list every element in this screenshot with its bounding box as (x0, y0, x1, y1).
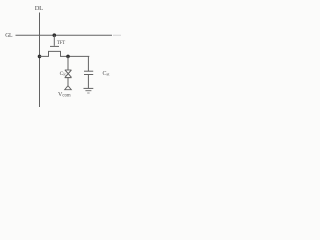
wire Clc bottom lead (67, 78, 69, 86)
wire TFT channel source-drain path (40, 51, 90, 56)
wire Cst bottom lead (87, 75, 89, 89)
capacitor Cst top plate (84, 70, 93, 72)
svg-text:Cst: Cst (103, 71, 111, 77)
capacitor Clc top plate (65, 69, 72, 71)
svg-text:GL: GL (5, 33, 13, 39)
wire Cst top lead (87, 56, 89, 71)
transistor TFT gate bar (50, 45, 59, 47)
wire Clc top lead (67, 56, 69, 70)
svg-text:Vcom: Vcom (58, 92, 71, 98)
svg-text:Clc: Clc (60, 71, 67, 77)
ground bar 2 (85, 90, 91, 92)
junction source dot on DL (38, 55, 42, 59)
junction gate dot on GL (53, 33, 57, 37)
wire GL faint tail (113, 34, 121, 36)
capacitor Clc bottom plate (65, 77, 72, 79)
capacitor Cst bottom plate (84, 74, 93, 76)
svg-text:TFT: TFT (57, 41, 65, 46)
capacitor Clc crossed dielectric (X) (65, 70, 71, 77)
svg-text:DL: DL (35, 5, 43, 12)
junction pixel node dot (Clc tap) (66, 55, 70, 59)
ground bar 1 (84, 87, 94, 89)
wire DL vertical data line (39, 13, 41, 108)
wire TFT gate lead (53, 35, 55, 46)
node Vcom terminal triangle (65, 86, 72, 90)
ground bar 3 (87, 92, 89, 94)
wire GL horizontal gate line (16, 34, 113, 36)
